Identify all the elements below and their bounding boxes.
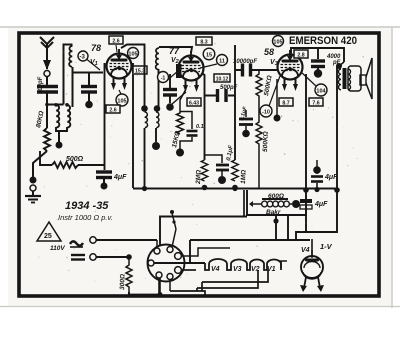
svg-text:78: 78	[91, 43, 101, 53]
svg-text:V4: V4	[211, 266, 220, 273]
svg-text:500KΩ: 500KΩ	[262, 131, 270, 152]
svg-text:105: 105	[128, 52, 137, 58]
svg-text:4μF: 4μF	[324, 174, 338, 181]
svg-text:-1: -1	[161, 76, 166, 82]
svg-text:-10: -10	[262, 110, 270, 116]
svg-text:105: 105	[273, 40, 282, 46]
svg-text:15: 15	[206, 53, 212, 59]
svg-text:104: 104	[316, 89, 326, 95]
svg-text:6.43: 6.43	[189, 101, 199, 107]
svg-text:1-V: 1-V	[320, 242, 333, 251]
svg-text:EMERSON 420: EMERSON 420	[289, 35, 357, 47]
svg-text:1934 -35: 1934 -35	[65, 200, 109, 212]
svg-text:4μF: 4μF	[113, 174, 127, 181]
svg-text:7.6: 7.6	[312, 101, 319, 107]
svg-text:11: 11	[219, 59, 225, 65]
svg-text:8.7: 8.7	[282, 101, 289, 107]
svg-text:10.12: 10.12	[216, 77, 229, 83]
svg-text:25: 25	[44, 233, 52, 240]
svg-text:77: 77	[169, 46, 180, 56]
svg-text:2.6: 2.6	[109, 108, 116, 114]
svg-text:10000pF: 10000pF	[233, 59, 257, 65]
svg-text:0.1: 0.1	[196, 124, 204, 130]
svg-text:2MΩ: 2MΩ	[195, 170, 203, 185]
svg-text:V4: V4	[301, 247, 310, 254]
svg-text:2.8: 2.8	[297, 53, 304, 59]
svg-text:58: 58	[264, 47, 274, 57]
svg-text:Instr 1000 Ω p.v.: Instr 1000 Ω p.v.	[58, 213, 113, 222]
svg-text:2.6: 2.6	[112, 39, 119, 45]
svg-text:105: 105	[117, 99, 126, 105]
svg-text:4μF: 4μF	[314, 201, 328, 208]
svg-text:500Ω: 500Ω	[66, 156, 84, 163]
svg-text:1MΩ: 1MΩ	[240, 170, 247, 184]
svg-text:Bakr: Bakr	[266, 209, 281, 216]
svg-text:V2: V2	[171, 57, 179, 65]
svg-text:8.3: 8.3	[200, 40, 207, 46]
svg-text:-3: -3	[80, 55, 86, 61]
svg-text:V3: V3	[233, 266, 242, 273]
svg-text:110V: 110V	[50, 245, 65, 252]
svg-text:300Ω: 300Ω	[119, 274, 127, 290]
